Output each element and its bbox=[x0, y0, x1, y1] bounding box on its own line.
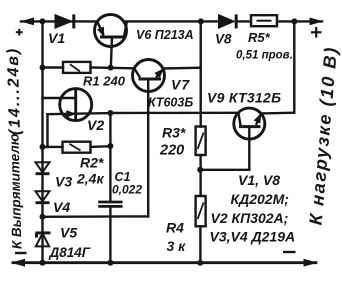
terminal arrow top-left bbox=[20, 18, 34, 26]
svg-text:0,51 пров.: 0,51 пров. bbox=[236, 50, 293, 62]
wire zener node horizontal bbox=[43, 215, 149, 218]
svg-text:V4: V4 bbox=[53, 199, 70, 215]
label - input bbox=[15, 252, 27, 254]
wire node A to V9 collector bbox=[110, 112, 238, 115]
wire V2 drain to rail bbox=[43, 97, 76, 99]
label + output bbox=[311, 27, 322, 38]
node rail / R2 bbox=[40, 144, 46, 150]
svg-text:V6 П213А: V6 П213А bbox=[136, 28, 194, 42]
svg-text:R2*: R2* bbox=[80, 155, 104, 171]
resistor R2 bbox=[63, 142, 91, 153]
wire V9 emitter to output rail bbox=[261, 111, 294, 114]
svg-text:V7: V7 bbox=[171, 77, 190, 93]
node top-left rail split bbox=[40, 18, 46, 24]
wire R3 to R4 bbox=[199, 155, 201, 196]
terminal arrow bottom-left bbox=[11, 259, 25, 267]
resistor R5 bbox=[251, 15, 277, 26]
node A: V2 source junction bbox=[107, 110, 113, 116]
diode V4 bbox=[36, 191, 50, 202]
svg-text:V2 КП302А;: V2 КП302А; bbox=[211, 210, 289, 226]
svg-text:R1 240: R1 240 bbox=[83, 74, 126, 89]
wire C1 top lead bbox=[109, 146, 111, 202]
svg-text:КД202М;: КД202М; bbox=[231, 191, 289, 207]
wire C1 bottom lead bbox=[109, 206, 111, 262]
svg-text:V1, V8: V1, V8 bbox=[238, 172, 280, 188]
svg-text:V1: V1 bbox=[48, 30, 65, 46]
svg-text:V2: V2 bbox=[87, 117, 104, 133]
label - output bbox=[283, 251, 296, 253]
node zener top junction bbox=[40, 214, 46, 220]
svg-text:2,4к: 2,4к bbox=[76, 171, 104, 187]
node R4 / bottom rail bbox=[197, 260, 203, 266]
wire bottom rail bbox=[13, 261, 316, 264]
wire node A down to node B bbox=[109, 113, 111, 146]
wire V7 emitter to middle vertical bbox=[163, 66, 200, 69]
svg-text:220: 220 bbox=[159, 143, 184, 159]
node rail / R1 bbox=[40, 65, 46, 71]
svg-text:К нагрузке (10 В): К нагрузке (10 В) bbox=[306, 45, 342, 226]
wire R2 to node B bbox=[91, 145, 111, 148]
svg-text:V5: V5 bbox=[60, 225, 77, 241]
wire left input rail vertical bbox=[41, 21, 43, 262]
terminal arrow bottom-right bbox=[304, 259, 318, 267]
wire R2 row left bbox=[43, 146, 63, 148]
wire top rail left segment bbox=[21, 20, 97, 22]
wire V9 base to R3/R4 node bbox=[200, 169, 249, 171]
resistor R3 bbox=[196, 127, 206, 156]
node C1 / bottom rail bbox=[107, 260, 113, 266]
wire V7 base down bbox=[147, 79, 149, 216]
node output + bbox=[291, 18, 297, 24]
wire V2 gate drop bbox=[46, 114, 48, 147]
diode V8 bbox=[219, 14, 237, 28]
node R3 / R4 / V9 base bbox=[197, 167, 203, 173]
zener V5 bbox=[36, 233, 51, 247]
wire right output rail vertical bbox=[293, 21, 295, 112]
svg-text:V3,V4 Д219А: V3,V4 Д219А bbox=[210, 229, 296, 245]
svg-text:V3: V3 bbox=[55, 174, 72, 190]
transistor V7 bbox=[133, 60, 165, 92]
transistor V2 (JFET) bbox=[60, 89, 92, 121]
wire R1 row left bbox=[43, 66, 64, 68]
svg-text:0,022: 0,022 bbox=[112, 183, 142, 197]
svg-text:R5*: R5* bbox=[248, 30, 271, 45]
svg-text:3 к: 3 к bbox=[167, 238, 187, 254]
svg-text:К Выпрямителю: К Выпрямителю bbox=[6, 133, 24, 249]
wire top rail output segment bbox=[277, 20, 322, 22]
wire middle vertical from top rail to R3 bbox=[199, 21, 201, 126]
node B: R2 / C1 junction bbox=[107, 143, 113, 149]
wire R4 to bottom rail bbox=[199, 226, 201, 262]
node top rail / middle vertical bbox=[198, 18, 204, 24]
wire R1 to V7 bbox=[91, 66, 135, 69]
node V5 / bottom rail bbox=[40, 260, 46, 266]
node R1 / V6 base bbox=[108, 65, 114, 71]
transistor V9 bbox=[234, 108, 265, 139]
wire V2 gate-source row bbox=[48, 113, 111, 114]
svg-text:R4: R4 bbox=[166, 220, 184, 236]
svg-text:R3*: R3* bbox=[162, 125, 186, 141]
capacitor C1 bbox=[98, 202, 122, 206]
svg-text:Д814Г: Д814Г bbox=[49, 245, 91, 260]
diode V3 bbox=[36, 162, 50, 173]
label + input bbox=[16, 29, 23, 36]
svg-text:КТ603Б: КТ603Б bbox=[148, 96, 193, 110]
terminal arrow top-right bbox=[310, 18, 324, 26]
svg-text:V8: V8 bbox=[215, 32, 232, 47]
resistor R4 bbox=[196, 196, 206, 226]
wire top rail middle segment bbox=[126, 20, 219, 22]
transistor V6 bbox=[95, 15, 127, 68]
diode V1 bbox=[55, 14, 74, 28]
wire top rail right segment bbox=[236, 20, 251, 22]
resistor R1 bbox=[63, 62, 91, 73]
svg-text:V9 КТ312Б: V9 КТ312Б bbox=[207, 90, 281, 106]
svg-text:(14...24в): (14...24в) bbox=[5, 47, 24, 136]
wire V9 base down bbox=[248, 127, 250, 170]
